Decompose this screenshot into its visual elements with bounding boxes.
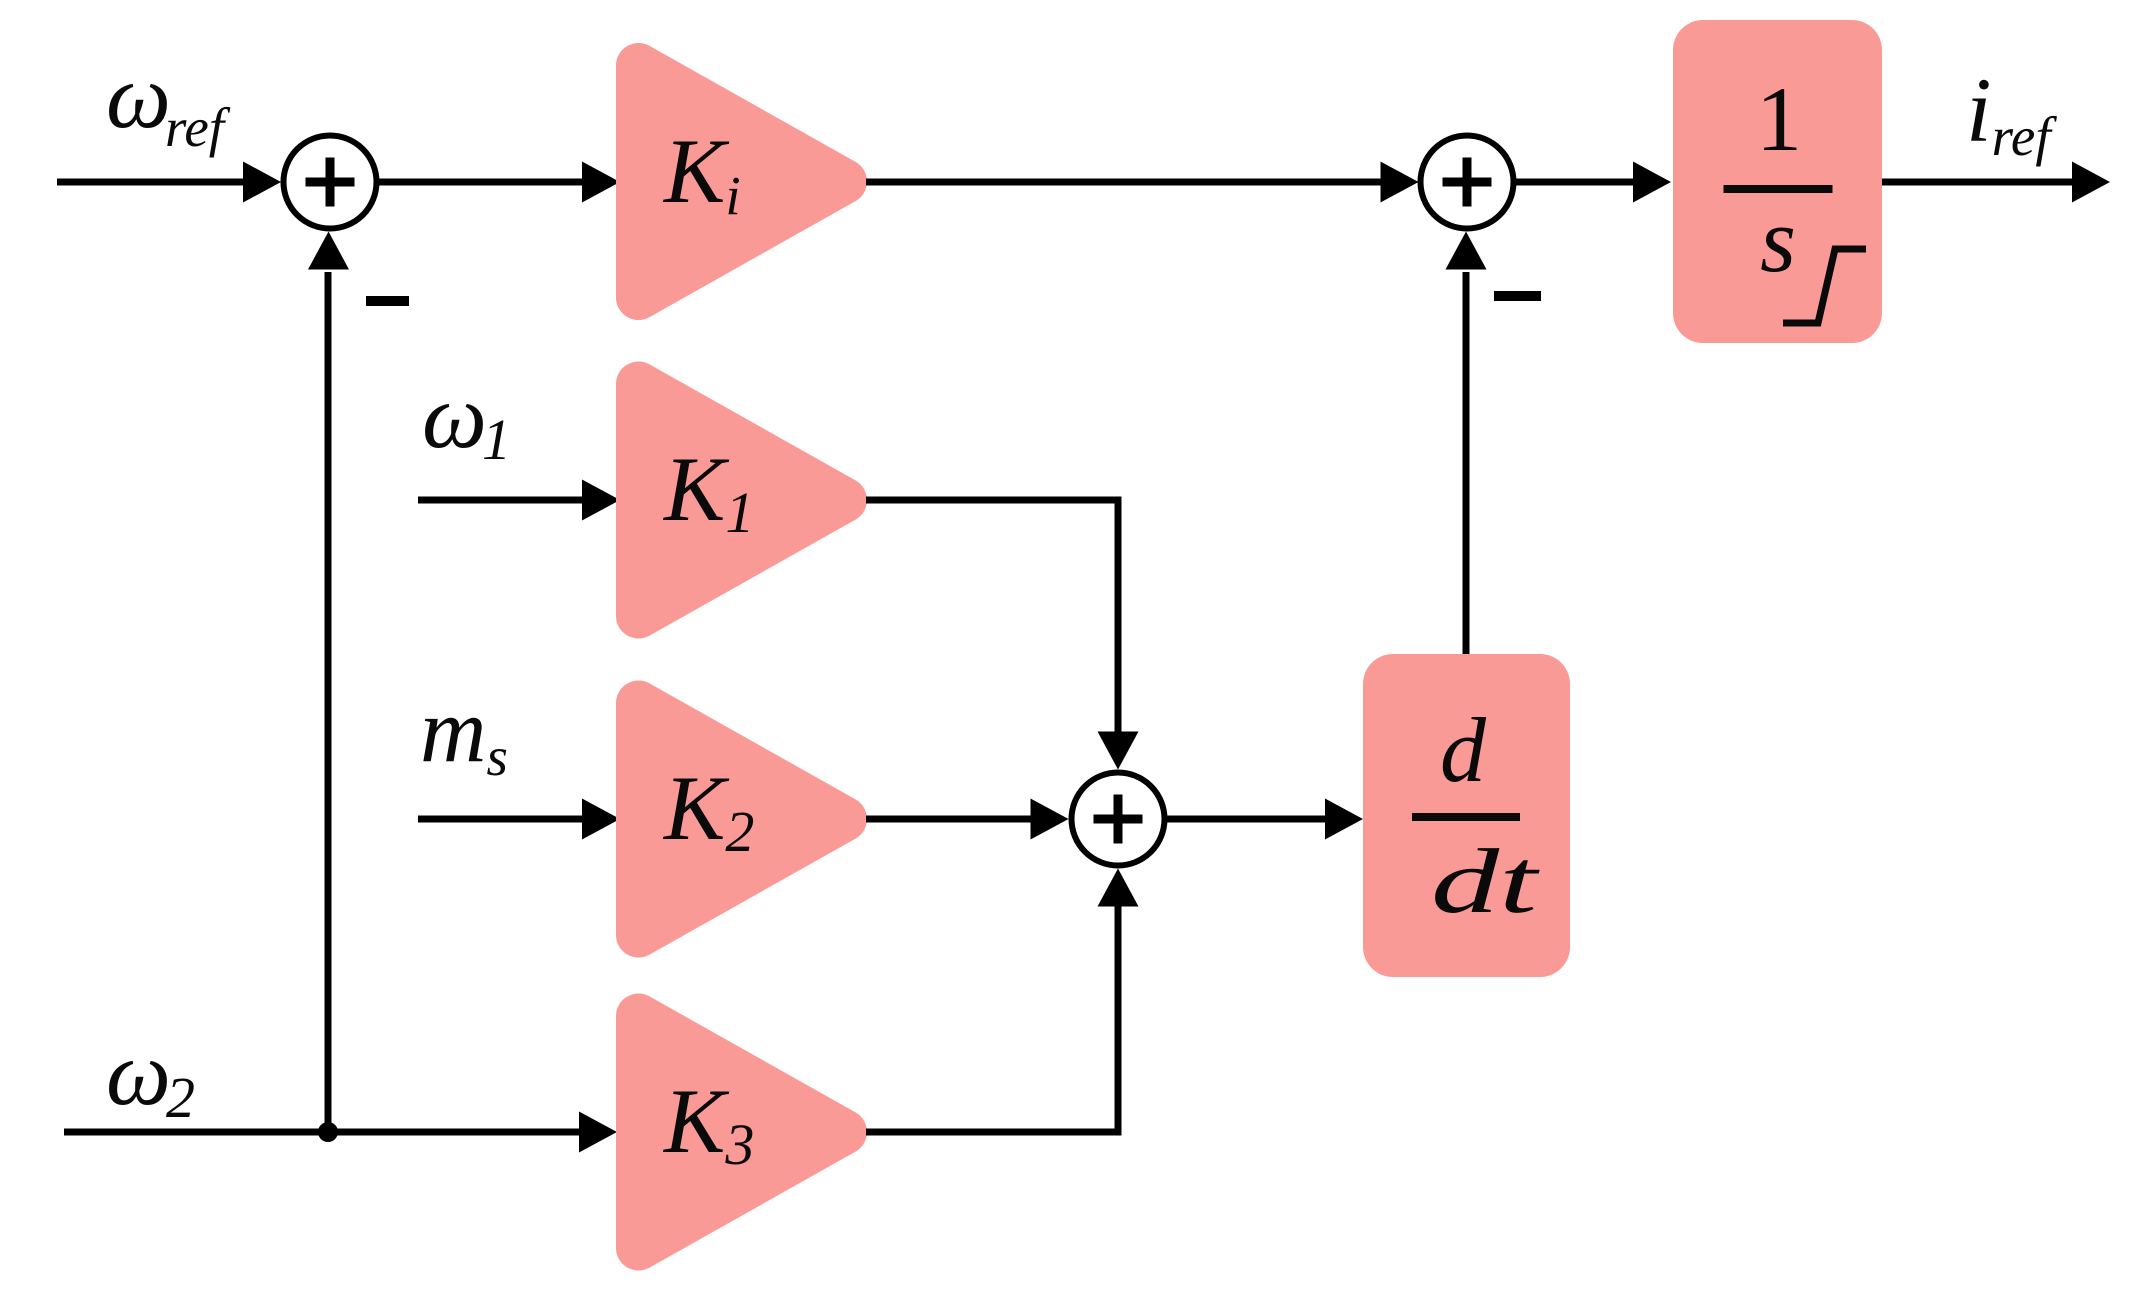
wire K1 to J3 (right then down) (866, 500, 1118, 734)
wire J3 to d/dt (1165, 816, 1331, 823)
wire J1 to Ki (377, 179, 587, 186)
wire omega_2 input (64, 1129, 584, 1136)
svg-text:1: 1 (1756, 68, 1802, 170)
summing junction J1 (284, 136, 377, 229)
svg-text:dt: dt (1431, 830, 1541, 932)
wire d/dt up to J2 (1463, 272, 1470, 654)
wire K3 to J3 (right then up) (866, 903, 1118, 1132)
summing junction J3 (1072, 773, 1165, 866)
minus sign at J1 (366, 296, 409, 306)
integrator block 1/s with saturation (1673, 20, 1882, 343)
derivative block d/dt (1363, 654, 1570, 977)
wire junction up to J1 (minus input) (325, 272, 332, 1132)
summing junction J2 (1421, 136, 1514, 229)
wire omega_ref input (57, 179, 248, 186)
wire J2 to integrator (1514, 179, 1638, 186)
svg-text:d: d (1440, 699, 1487, 801)
wire m_s input (418, 816, 586, 823)
saturation icon (1783, 249, 1866, 323)
svg-text:s: s (1760, 189, 1796, 291)
gain K2 (639, 703, 845, 935)
gain Ki (639, 66, 845, 298)
minus sign at J2 (1494, 291, 1541, 301)
wire integrator to output (1882, 179, 2074, 186)
wire Ki to J2 (866, 179, 1384, 186)
junction dot on omega_2 wire (318, 1122, 338, 1142)
wire K2 to J3 (866, 816, 1035, 823)
gain K3 (639, 1016, 845, 1248)
gain K1 (639, 384, 845, 616)
wire omega_1 input (418, 497, 586, 504)
